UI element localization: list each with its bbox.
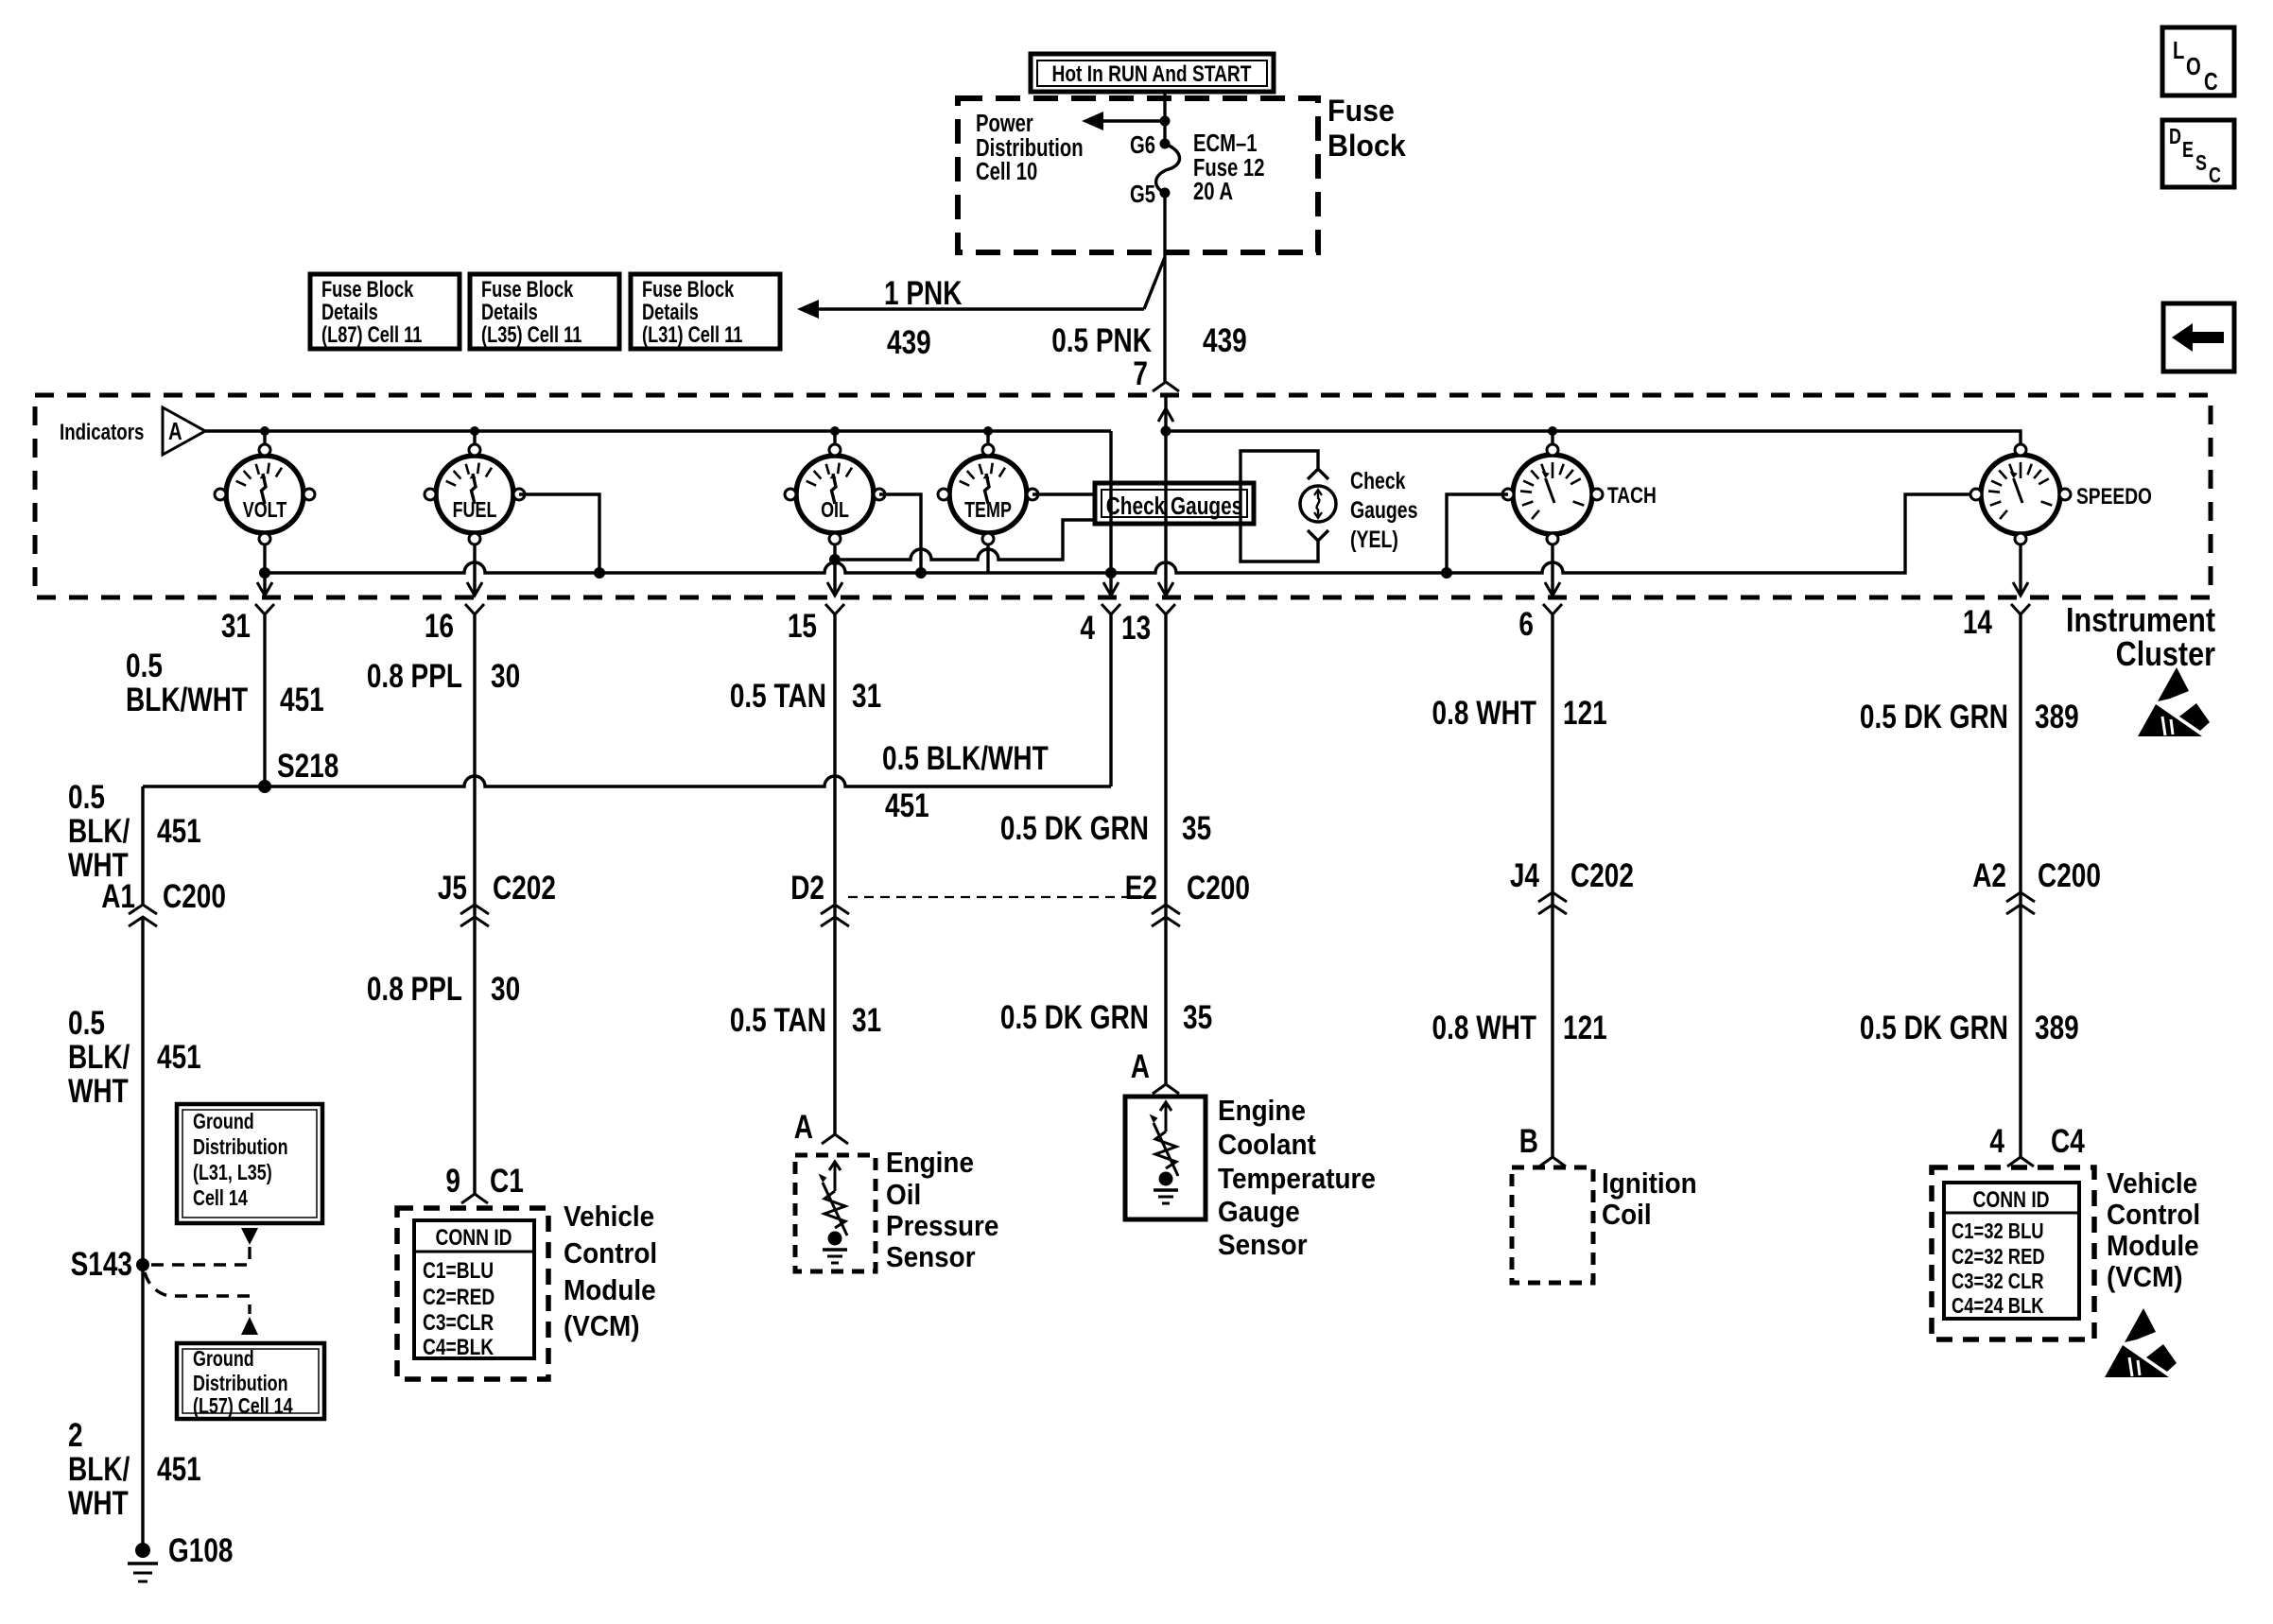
svg-text:A2: A2 [1972, 856, 2006, 894]
svg-text:C2=RED: C2=RED [423, 1284, 495, 1310]
connector C200 cavity A2 [1972, 856, 2101, 914]
svg-text:Coil: Coil [1602, 1199, 1652, 1232]
svg-text:0.5 DK GRN: 0.5 DK GRN [1860, 698, 2008, 735]
svg-text:Distribution: Distribution [193, 1372, 288, 1396]
svg-text:1 PNK: 1 PNK [884, 274, 963, 312]
svg-text:A1: A1 [101, 877, 135, 915]
wire: 0.5 PNK entering cluster down to pin 13 [1153, 382, 1179, 596]
svg-text:0.5 DK GRN: 0.5 DK GRN [1000, 998, 1149, 1036]
node: Hot In RUN And START label box [1031, 54, 1274, 92]
node: Ignition Coil (dashed box) [1512, 1167, 1593, 1283]
svg-text:13: 13 [1121, 609, 1151, 647]
svg-text:A: A [168, 418, 182, 445]
svg-text:(YEL): (YEL) [1350, 527, 1398, 553]
svg-text:Vehicle: Vehicle [564, 1201, 654, 1234]
pin A at coolant sensor [1131, 1047, 1179, 1094]
svg-text:(L57) Cell 14: (L57) Cell 14 [193, 1394, 293, 1419]
wire: 1 PNK 439 branch to fuse block details [797, 257, 1165, 319]
svg-text:Gauge: Gauge [1218, 1196, 1300, 1229]
svg-text:D2: D2 [790, 869, 824, 907]
pin A at oil pressure sensor [794, 1108, 848, 1146]
svg-text:G108: G108 [168, 1531, 233, 1569]
svg-text:Details: Details [481, 300, 538, 325]
gauge: TEMP [938, 431, 1038, 544]
svg-text:6: 6 [1518, 605, 1534, 643]
svg-text:L: L [2173, 37, 2184, 64]
svg-text:0.5: 0.5 [68, 778, 105, 816]
symbol: ESD sensitivity (VCM) [2105, 1308, 2177, 1377]
svg-text:389: 389 [2035, 1009, 2079, 1046]
svg-text:D: D [2169, 125, 2181, 149]
svg-text:CONN ID: CONN ID [435, 1224, 512, 1251]
svg-text:BLK/WHT: BLK/WHT [126, 681, 249, 718]
svg-text:0.5 TAN: 0.5 TAN [730, 1001, 826, 1039]
svg-text:WHT: WHT [68, 1484, 129, 1522]
svg-text:(L87) Cell 11: (L87) Cell 11 [321, 322, 422, 348]
svg-text:ECM–1: ECM–1 [1193, 130, 1258, 157]
wire: left ground leg down to A1 [141, 786, 144, 905]
wire: 0.5 BLK/WHT 451 from pin 31 to S218 [263, 614, 266, 786]
pin 16 connector [425, 604, 484, 645]
wire: 0.8 PPL 30 from pin 16 to VCM [473, 614, 476, 1194]
svg-text:C4: C4 [2051, 1122, 2085, 1160]
node: DESC reference box [2162, 120, 2234, 188]
svg-text:C202: C202 [493, 869, 556, 907]
svg-text:20 A: 20 A [1193, 178, 1233, 205]
svg-text:Module: Module [564, 1274, 656, 1307]
svg-text:Check: Check [1350, 468, 1406, 494]
svg-text:30: 30 [491, 657, 520, 695]
node: Ground Distribution (L57) Cell 14 [177, 1343, 324, 1419]
connector C200 cavity A1 [101, 877, 226, 926]
wire: dashed tie S143 to Ground Distribution (L57) [145, 1272, 258, 1335]
svg-text:35: 35 [1182, 809, 1211, 847]
gauge: VOLT [215, 431, 315, 544]
node: Engine Oil Pressure Sensor (dashed box) [795, 1155, 876, 1271]
svg-text:451: 451 [157, 812, 201, 850]
svg-text:TACH: TACH [1607, 482, 1657, 509]
svg-text:4: 4 [1989, 1122, 2004, 1160]
splice S218 [258, 747, 338, 793]
svg-text:Cell 14: Cell 14 [193, 1186, 248, 1211]
wire: FUEL bottom through bus to pin 16 [467, 544, 482, 596]
svg-text:A: A [1131, 1047, 1150, 1085]
svg-text:Control: Control [2107, 1199, 2200, 1232]
connector C202 cavity J4 [1510, 856, 1634, 914]
svg-text:4: 4 [1080, 609, 1095, 647]
svg-text:Coolant: Coolant [1218, 1129, 1316, 1162]
svg-text:0.5 TAN: 0.5 TAN [730, 677, 826, 715]
svg-text:Fuse Block: Fuse Block [321, 277, 413, 302]
svg-text:0.5: 0.5 [68, 1004, 105, 1042]
splice S143 [71, 1245, 149, 1283]
svg-text:2: 2 [68, 1416, 83, 1454]
pin 6 connector [1518, 604, 1562, 643]
svg-text:Sensor: Sensor [1218, 1229, 1308, 1262]
wire: VOLT bottom to ground bus [257, 544, 272, 596]
wire: 0.5 BLK/WHT 451 from A1 to S143 [141, 917, 144, 1550]
svg-text:0.5 DK GRN: 0.5 DK GRN [1000, 809, 1149, 847]
node: Fuse Block Details (L87) Cell 11 [310, 274, 460, 349]
svg-text:A: A [794, 1108, 813, 1146]
pin B at ignition coil [1519, 1122, 1566, 1166]
svg-text:C200: C200 [2038, 856, 2101, 894]
svg-text:451: 451 [280, 681, 324, 718]
svg-text:BLK/: BLK/ [68, 1038, 130, 1076]
wire: TACH left nub branch to bus [1447, 494, 1508, 573]
svg-text:Hot In RUN And START: Hot In RUN And START [1051, 60, 1252, 87]
node: Vehicle Control Module (VCM) dashed box [397, 1208, 548, 1379]
svg-text:121: 121 [1563, 694, 1607, 732]
symbol: ESD sensitivity (instrument cluster) [2138, 667, 2210, 736]
fuse block dashed outline [958, 98, 1318, 252]
svg-text:S143: S143 [71, 1245, 132, 1283]
wire: ground bus inside cluster [265, 494, 1970, 579]
node: LOC reference box [2162, 27, 2234, 95]
svg-text:S218: S218 [277, 747, 338, 785]
svg-text:0.8 PPL: 0.8 PPL [367, 657, 462, 695]
svg-text:E2: E2 [1125, 869, 1157, 907]
wire: indicators feed line (right half to SPEEDO) [1161, 426, 2021, 445]
wire: TEMP right nub to Check Gauges box [1032, 492, 1095, 495]
svg-text:BLK/: BLK/ [68, 812, 130, 850]
svg-text:OIL: OIL [821, 498, 849, 523]
svg-text:C4=24 BLK: C4=24 BLK [1952, 1294, 2044, 1318]
wire: 0.5 TAN 31 from pin 15 to oil pressure sensor [833, 614, 836, 1134]
wire: OIL bottom to Check Gauges + pin 15 [827, 544, 842, 596]
node: Check Gauges indicator box [1095, 483, 1254, 524]
node: CONN ID table (VCM right) [1944, 1183, 2079, 1319]
node A: indicators buffer triangle [163, 407, 205, 455]
wire: OIL right nub branch to bus [879, 494, 927, 579]
svg-text:Ground: Ground [193, 1110, 254, 1134]
svg-text:9: 9 [445, 1162, 460, 1200]
svg-text:Cluster: Cluster [2116, 636, 2215, 674]
svg-text:WHT: WHT [68, 1072, 129, 1110]
svg-text:121: 121 [1563, 1009, 1607, 1046]
svg-text:Details: Details [642, 300, 699, 325]
svg-text:451: 451 [885, 786, 929, 824]
svg-text:Temperature: Temperature [1218, 1163, 1376, 1196]
svg-text:16: 16 [425, 607, 454, 645]
svg-text:0.8 WHT: 0.8 WHT [1432, 694, 1537, 732]
svg-text:14: 14 [1963, 603, 1992, 641]
svg-text:(VCM): (VCM) [2107, 1261, 2183, 1294]
svg-text:Cell 10: Cell 10 [976, 158, 1037, 185]
svg-text:Ground: Ground [193, 1347, 254, 1372]
ground G108 [128, 1531, 233, 1581]
fuse F12 ECM-1 20A (squiggle between G6 and G5) [1156, 139, 1180, 199]
svg-text:O: O [2186, 53, 2201, 80]
svg-text:C3=CLR: C3=CLR [423, 1309, 494, 1336]
wire: FUEL right nub branch to bus [519, 494, 605, 579]
svg-text:0.8 PPL: 0.8 PPL [367, 970, 462, 1008]
svg-text:E: E [2182, 138, 2194, 163]
svg-text:FUEL: FUEL [453, 498, 497, 523]
svg-text:B: B [1519, 1122, 1538, 1160]
node: Ground Distribution (L31, L35) Cell 14 [177, 1104, 322, 1223]
svg-text:(L31, L35): (L31, L35) [193, 1161, 272, 1185]
svg-text:Module: Module [2107, 1230, 2199, 1263]
node: Fuse Block Details (L35) Cell 11 [470, 274, 619, 349]
wire: battery feed from Hot In RUN box to fuse [1163, 90, 1166, 142]
svg-text:C: C [2204, 68, 2218, 95]
pin 13 connector [1121, 604, 1175, 647]
gauge: FUEL [425, 431, 525, 544]
svg-text:SPEEDO: SPEEDO [2076, 483, 2152, 510]
svg-text:451: 451 [157, 1450, 201, 1488]
svg-text:(VCM): (VCM) [564, 1310, 640, 1343]
gauge: TACH [1502, 431, 1657, 544]
svg-text:Distribution: Distribution [193, 1135, 288, 1160]
svg-text:Sensor: Sensor [886, 1241, 976, 1274]
svg-text:C1: C1 [490, 1162, 524, 1200]
svg-text:C4=BLK: C4=BLK [423, 1334, 494, 1360]
svg-text:CONN ID: CONN ID [1972, 1186, 2049, 1213]
wire: arrow to Power Distribution [1082, 112, 1171, 130]
svg-text:VOLT: VOLT [243, 498, 287, 523]
svg-text:451: 451 [157, 1038, 201, 1076]
svg-text:0.5 BLK/WHT: 0.5 BLK/WHT [882, 739, 1049, 777]
connector C200 cavity E2 [1125, 869, 1250, 926]
svg-text:439: 439 [1203, 321, 1247, 359]
svg-text:389: 389 [2035, 698, 2079, 735]
wire: dashed connector tie D2 to E2 [848, 896, 1154, 898]
svg-text:31: 31 [221, 607, 251, 645]
svg-text:Vehicle: Vehicle [2107, 1167, 2197, 1201]
svg-text:0.5 DK GRN: 0.5 DK GRN [1860, 1009, 2008, 1046]
svg-text:Details: Details [321, 300, 378, 325]
node: Engine Coolant Temperature Gauge Sensor (solid box) [1125, 1097, 1206, 1219]
svg-text:Fuse: Fuse [1327, 94, 1395, 128]
pin 9 C1 at VCM [445, 1162, 523, 1203]
wire: TACH bottom to pin 6 [1545, 544, 1560, 596]
svg-text:30: 30 [491, 970, 520, 1008]
wire: SPEEDO bottom to pin 14 [2013, 544, 2028, 596]
gauge: SPEEDO [1970, 444, 2152, 544]
svg-text:C2=32 RED: C2=32 RED [1952, 1245, 2045, 1269]
svg-text:Ignition: Ignition [1602, 1167, 1697, 1201]
svg-text:C202: C202 [1570, 856, 1634, 894]
svg-text:Check Gauges: Check Gauges [1106, 492, 1242, 520]
svg-text:439: 439 [887, 323, 931, 361]
svg-text:35: 35 [1183, 998, 1212, 1036]
instrument cluster dashed outline [35, 395, 2211, 597]
node: back-arrow reference box [2163, 303, 2234, 371]
wire: indicators feed line (left half) [205, 426, 1111, 436]
svg-text:C1=32 BLU: C1=32 BLU [1952, 1219, 2044, 1243]
svg-text:BLK/: BLK/ [68, 1450, 130, 1488]
wire: pin 4 to S218 run [1109, 614, 1112, 786]
pin 15 connector [788, 604, 844, 645]
lamp: Check Gauges (YEL) indicator [1241, 451, 1336, 561]
node: Fuse Block Details (L31) Cell 11 [631, 274, 780, 349]
wire: OIL to Check Gauges jog [841, 520, 1095, 560]
svg-text:J4: J4 [1510, 856, 1539, 894]
svg-text:Gauges: Gauges [1350, 497, 1417, 524]
svg-text:C1=BLU: C1=BLU [423, 1257, 494, 1284]
redraw vertical wires over check gauges box [1109, 485, 1112, 522]
svg-text:G5: G5 [1130, 181, 1155, 208]
svg-text:7: 7 [1133, 354, 1148, 392]
svg-text:Fuse Block: Fuse Block [481, 277, 573, 302]
svg-text:C3=32 CLR: C3=32 CLR [1952, 1270, 2044, 1293]
node: Vehicle Control Module (VCM) dashed box (right) [1932, 1167, 2094, 1339]
wire: 0.5 PNK 439 from fuse down to instrument cluster [1163, 193, 1166, 382]
node: CONN ID table (VCM left) [414, 1220, 534, 1360]
svg-text:Fuse Block: Fuse Block [642, 277, 734, 302]
svg-text:C200: C200 [1187, 869, 1250, 907]
wire: S218 splice run (ties pin 31, pin 4, A1) [143, 776, 1111, 786]
svg-text:Block: Block [1327, 129, 1406, 163]
svg-text:31: 31 [852, 1001, 881, 1039]
svg-text:(L31) Cell 11: (L31) Cell 11 [642, 322, 742, 348]
wire: 0.8 WHT 121 from pin 6 to ignition coil [1551, 614, 1553, 1157]
svg-text:Pressure: Pressure [886, 1210, 998, 1243]
wire: 0.5 DK GRN 35 from pin 13 to coolant sensor [1164, 614, 1167, 1084]
pin 4 C4 at VCM [1989, 1122, 2085, 1166]
connector C202 cavity J5 [438, 869, 556, 926]
svg-text:Instrument: Instrument [2066, 602, 2215, 640]
svg-text:G6: G6 [1130, 131, 1155, 159]
svg-text:S: S [2195, 151, 2207, 176]
pin 31 connector [221, 604, 274, 645]
pin 14 connector [1963, 603, 2030, 641]
svg-text:Oil: Oil [886, 1179, 921, 1212]
pin 4 connector [1080, 604, 1120, 647]
wire: dashed tie S143 to Ground Distribution (L31,L35) [151, 1228, 258, 1265]
gauge: OIL [785, 431, 885, 544]
svg-text:Engine: Engine [886, 1147, 974, 1180]
svg-text:TEMP: TEMP [964, 498, 1012, 523]
svg-text:C: C [2209, 164, 2221, 188]
wire: check-gauges drive line down to pin 4 [1103, 431, 1119, 596]
wire: TEMP bottom to bus [986, 544, 989, 573]
svg-text:0.5: 0.5 [126, 647, 163, 684]
svg-text:0.5 PNK: 0.5 PNK [1051, 321, 1152, 359]
svg-text:C200: C200 [163, 877, 226, 915]
svg-text:Control: Control [564, 1237, 657, 1270]
svg-text:31: 31 [852, 677, 881, 715]
svg-text:(L35) Cell 11: (L35) Cell 11 [481, 322, 581, 348]
svg-text:Engine: Engine [1218, 1095, 1306, 1128]
connector C200 cavity D2 [790, 869, 849, 926]
svg-text:15: 15 [788, 607, 817, 645]
svg-text:J5: J5 [438, 869, 467, 907]
svg-text:Power: Power [976, 110, 1033, 137]
svg-text:Indicators: Indicators [60, 420, 144, 445]
wire: 0.5 DK GRN 389 from pin 14 to VCM [2019, 614, 2021, 1157]
svg-text:0.8 WHT: 0.8 WHT [1432, 1009, 1537, 1046]
